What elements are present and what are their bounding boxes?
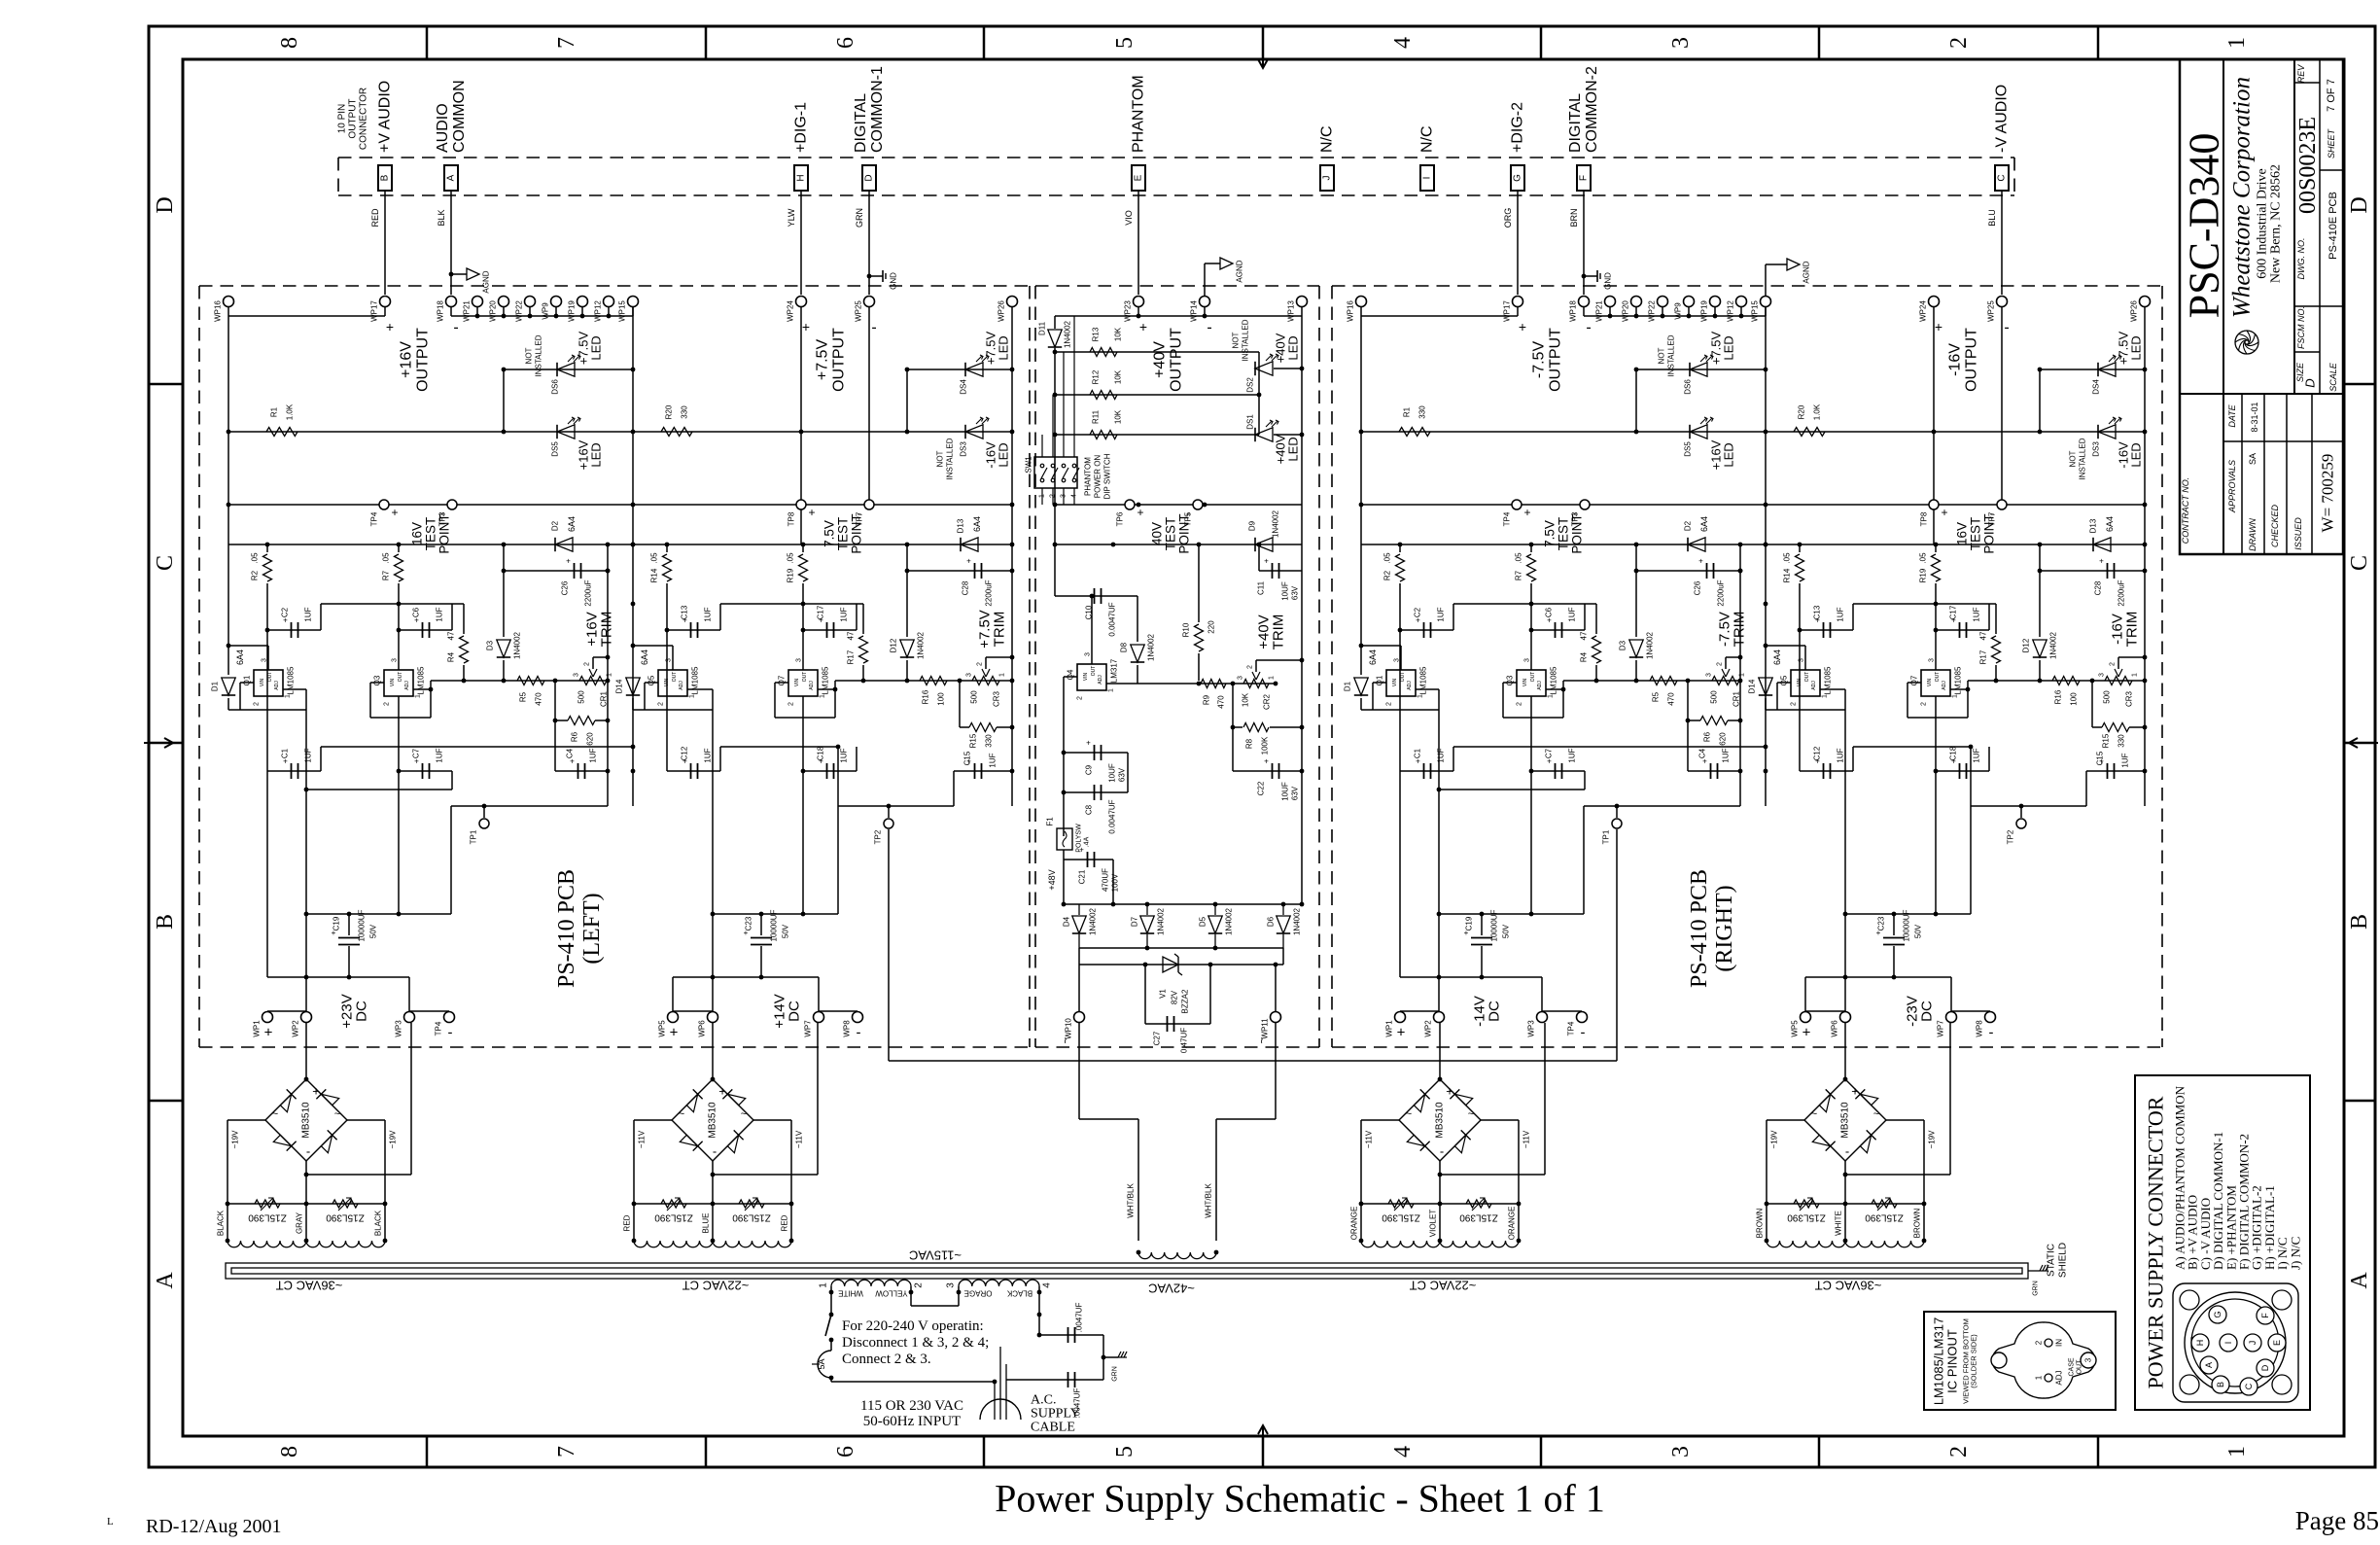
test point TP8 — [796, 500, 806, 509]
svg-text:-: - — [857, 1025, 861, 1041]
svg-text:R16: R16 — [2054, 689, 2063, 704]
svg-text:OUTPUT: OUTPUT — [348, 98, 359, 138]
svg-text:2: 2 — [1921, 702, 1928, 706]
svg-text:50V: 50V — [782, 924, 790, 938]
svg-text:D14: D14 — [615, 679, 624, 693]
svg-text:Q7: Q7 — [778, 675, 787, 685]
svg-text:SHEET: SHEET — [2327, 127, 2336, 158]
svg-text:C12: C12 — [1813, 746, 1822, 760]
svg-text:6A4: 6A4 — [1772, 650, 1782, 665]
terminal WP24 (left) — [796, 297, 807, 307]
resistor R6 620 — [554, 681, 556, 720]
connector pin B — [378, 165, 392, 191]
svg-text:1UF: 1UF — [589, 748, 598, 762]
svg-text:NOT: NOT — [1232, 332, 1241, 348]
svg-text:R19: R19 — [1919, 568, 1928, 582]
svg-text:.0047UF: .0047UF — [1075, 1303, 1084, 1333]
svg-text:BLACK: BLACK — [374, 1210, 383, 1236]
resistor R4 47 — [463, 604, 465, 634]
capacitor C1 1UF — [267, 770, 321, 772]
wire chain2 R row — [1766, 431, 2145, 433]
svg-text:CONTRACT NO.: CONTRACT NO. — [2181, 477, 2190, 544]
terminal WP11 — [1271, 1012, 1281, 1023]
svg-text:620: 620 — [586, 732, 595, 746]
svg-text:3: 3 — [1394, 658, 1401, 662]
svg-text:For 220-240 V operatin:: For 220-240 V operatin: — [842, 1318, 984, 1334]
svg-text:C7: C7 — [412, 748, 421, 758]
svg-text:LM1085: LM1085 — [691, 666, 700, 694]
resistor R8 100K — [1232, 684, 1234, 727]
connector pin F circle — [2257, 1307, 2274, 1324]
ground tap AGND on pin A wire — [449, 272, 454, 277]
bridge rectifier B3 MB3510 — [1399, 1079, 1440, 1120]
svg-text:DS3: DS3 — [2092, 441, 2101, 457]
capacitor C18 1UF — [803, 770, 857, 772]
primary winding 1-2 — [831, 1280, 911, 1286]
svg-text:2: 2 — [2110, 662, 2117, 666]
regulator Q5 LM1085 — [658, 670, 687, 696]
svg-text:C: C — [153, 555, 178, 571]
svg-text:GND: GND — [890, 272, 898, 290]
test point TP5 — [1193, 500, 1203, 509]
wire bridge B4 + lead — [1844, 1023, 1846, 1079]
svg-text:1: 1 — [1039, 494, 1046, 498]
svg-text:POINT: POINT — [1570, 513, 1585, 553]
wire phantom main row — [1055, 544, 1302, 545]
diode D14 6A4 — [1759, 678, 1772, 695]
svg-text:BRN: BRN — [1569, 208, 1579, 227]
svg-text:Z15L390: Z15L390 — [1865, 1212, 1904, 1223]
svg-text:330: 330 — [985, 734, 994, 748]
resistor R14 .05 — [1799, 544, 1801, 552]
svg-text:LED: LED — [2129, 442, 2144, 467]
svg-text:POWER ON: POWER ON — [1094, 455, 1102, 499]
svg-text:SHIELD: SHIELD — [2058, 1243, 2069, 1278]
svg-text:1UF: 1UF — [436, 748, 444, 762]
svg-text:220: 220 — [1207, 620, 1216, 634]
terminal WP19 (right) — [1710, 297, 1721, 307]
wire bridge B1 + lead — [305, 1023, 307, 1079]
svg-text:F: F — [1579, 175, 1590, 181]
wire chain2 ADJ row — [1968, 680, 2145, 682]
diode D3 1N4002 — [1635, 571, 1637, 637]
wire test point row — [228, 504, 633, 506]
svg-text:10000UF: 10000UF — [770, 909, 779, 941]
svg-text:F1: F1 — [1046, 817, 1055, 826]
svg-text:WP26: WP26 — [2130, 300, 2139, 322]
svg-text:SW1: SW1 — [1025, 456, 1033, 474]
svg-text:E: E — [1134, 174, 1144, 181]
connector pin J — [1320, 165, 1334, 191]
terminal WP13 (phantom) — [1297, 297, 1308, 307]
svg-text:New Bern, NC 28562: New Bern, NC 28562 — [2269, 164, 2284, 283]
terminal WP2 (left) bottom — [301, 1012, 312, 1023]
svg-text:CASE: CASE — [2069, 1357, 2076, 1376]
svg-text:RED: RED — [781, 1214, 789, 1231]
svg-text:.05: .05 — [1383, 552, 1392, 564]
svg-text:470: 470 — [1667, 692, 1676, 706]
svg-text:~: ~ — [334, 1108, 340, 1120]
svg-text:2: 2 — [584, 662, 591, 666]
svg-text:10K: 10K — [1114, 327, 1123, 341]
svg-text:(LEFT): (LEFT) — [579, 893, 605, 964]
connector drawing outer square — [2173, 1283, 2298, 1402]
svg-text:.05: .05 — [787, 552, 795, 564]
svg-text:115 OR 230 VAC: 115 OR 230 VAC — [860, 1398, 963, 1414]
regulator Q7 LM1085 — [788, 670, 818, 696]
10-pin output connector dashed box — [338, 157, 2014, 158]
varistor Z15L390 right B3 — [1466, 1200, 1491, 1208]
svg-text:D: D — [2260, 1364, 2270, 1371]
resistor R17 47 — [862, 604, 864, 634]
resistor R17 47 — [1995, 604, 1997, 634]
svg-text:PS-410E PCB: PS-410E PCB — [2327, 192, 2339, 260]
capacitor C1 1UF — [1400, 770, 1453, 772]
trimpot CR3 500 — [972, 677, 999, 685]
svg-text:ADJ: ADJ — [1098, 675, 1103, 685]
svg-text:ORAGE: ORAGE — [964, 1289, 993, 1298]
svg-text:C23: C23 — [1877, 916, 1886, 931]
svg-text:-: - — [306, 1144, 310, 1159]
svg-text:1UF: 1UF — [1837, 607, 1845, 621]
wire sub row — [1453, 603, 1596, 605]
varistor Z15L390 right B4 — [1872, 1200, 1897, 1208]
svg-text:INSTALLED: INSTALLED — [2079, 438, 2087, 479]
svg-text:2: 2 — [1386, 702, 1393, 706]
svg-text:WP18: WP18 — [1569, 300, 1578, 322]
svg-text:ORG: ORG — [1503, 208, 1513, 228]
capacitor C13 1UF — [1799, 583, 1801, 771]
svg-text:R11: R11 — [1092, 409, 1101, 424]
svg-text:MB3510: MB3510 — [301, 1102, 312, 1139]
svg-text:C9: C9 — [1085, 764, 1094, 775]
svg-text:TEST: TEST — [836, 517, 851, 551]
svg-text:6: 6 — [833, 1446, 858, 1457]
svg-text:3: 3 — [666, 658, 673, 662]
svg-text:+: + — [312, 1084, 320, 1099]
svg-text:+: + — [802, 319, 810, 334]
terminal WP16 (right) — [1356, 297, 1367, 307]
terminal WP22 (left) — [525, 297, 536, 307]
wire trim wiper — [1726, 656, 1740, 658]
svg-text:WP16: WP16 — [214, 300, 223, 322]
svg-text:330: 330 — [1418, 405, 1427, 419]
svg-text:6A4: 6A4 — [2105, 516, 2115, 532]
svg-text:+: + — [670, 1025, 679, 1041]
wire Q7 pins — [775, 682, 788, 684]
svg-text:R8: R8 — [1245, 738, 1254, 749]
diode D1 6A4 — [227, 544, 229, 675]
wire Q5 pins — [672, 646, 674, 670]
svg-text:WP25: WP25 — [1987, 300, 1996, 322]
svg-text:+DIG-2: +DIG-2 — [1510, 102, 1526, 153]
svg-text:470: 470 — [1217, 695, 1226, 709]
svg-text:BLU: BLU — [1987, 209, 1997, 227]
svg-text:DIP SWITCH: DIP SWITCH — [1103, 453, 1112, 499]
wire phantom rectifier row — [1064, 903, 1302, 905]
svg-text:GND: GND — [1604, 272, 1613, 290]
wire Q1 pins — [1400, 646, 1402, 670]
svg-text:~11V: ~11V — [638, 1130, 647, 1148]
svg-text:WP12: WP12 — [594, 300, 603, 322]
svg-text:2: 2 — [2035, 1340, 2044, 1345]
svg-text:R20: R20 — [1798, 404, 1806, 419]
TO-3 mounting hole left — [1991, 1352, 2007, 1368]
svg-text:W= 700259: W= 700259 — [2319, 454, 2337, 533]
svg-text:1: 1 — [285, 694, 292, 698]
svg-text:100K: 100K — [1261, 736, 1270, 755]
svg-text:DS3: DS3 — [960, 441, 968, 457]
terminal WP21 (left) — [472, 297, 483, 307]
svg-text:-7.5V: -7.5V — [1531, 341, 1548, 379]
svg-text:B: B — [2347, 914, 2372, 930]
wire Q7 pins — [1907, 682, 1921, 684]
wire chain2 tp row — [1766, 504, 2145, 506]
wire bridge B1 ac leads — [227, 1119, 265, 1121]
svg-text:R20: R20 — [665, 404, 674, 419]
svg-text:DS1: DS1 — [1246, 414, 1255, 430]
svg-text:D11: D11 — [1038, 321, 1047, 335]
svg-text:GRN: GRN — [2033, 1281, 2040, 1296]
svg-text:R1: R1 — [1403, 406, 1412, 417]
svg-text:2: 2 — [914, 1282, 925, 1288]
svg-text:+: + — [386, 319, 394, 334]
svg-text:WP14: WP14 — [1190, 300, 1199, 322]
svg-text:OUT: OUT — [1804, 672, 1810, 683]
connector pin H circle — [2191, 1334, 2209, 1352]
terminal WP5 (left) bottom — [668, 1012, 679, 1023]
svg-text:YLW: YLW — [787, 208, 796, 227]
svg-text:1N4002: 1N4002 — [1293, 907, 1302, 935]
svg-text:DC: DC — [1487, 1001, 1503, 1022]
svg-text:R15: R15 — [969, 733, 978, 748]
wire bridge B2 ac leads — [634, 1119, 672, 1121]
wire + output bus — [228, 315, 385, 317]
capacitor C22 10UF 63V — [1259, 770, 1302, 772]
svg-text:7 OF 7: 7 OF 7 — [2326, 79, 2337, 112]
connector pin F — [1577, 165, 1591, 191]
svg-text:LM1085: LM1085 — [287, 666, 296, 694]
svg-text:DATE: DATE — [2227, 404, 2237, 427]
svg-text:+: + — [566, 557, 571, 566]
resistor R7 .05 — [1530, 544, 1532, 552]
svg-text:+: + — [1698, 557, 1703, 566]
connector mounting holes — [2180, 1290, 2199, 1310]
trimpot CR1 500 — [1712, 677, 1739, 685]
border zone ticks — [426, 26, 429, 59]
resistor R13 10K — [1055, 351, 1259, 353]
terminal WP8 (left) bottom — [853, 1012, 863, 1023]
svg-text:Z15L390: Z15L390 — [326, 1212, 365, 1223]
wire TP1 row — [451, 805, 608, 807]
svg-text:D14: D14 — [1748, 679, 1757, 693]
svg-text:10 PIN: 10 PIN — [337, 104, 348, 134]
svg-text:MB3510: MB3510 — [1435, 1102, 1446, 1139]
zener V1 82V BZZA2 with C27 0.47UF — [1144, 965, 1146, 1024]
svg-text:+: + — [1397, 1025, 1406, 1041]
ground tap AGND on WP15 right — [1765, 264, 1767, 297]
svg-text:2: 2 — [977, 662, 984, 666]
terminal WP12 (left) — [604, 297, 614, 307]
wire varistor row B2 — [634, 1203, 791, 1205]
capacitor C17 1UF — [1935, 583, 1937, 670]
svg-text:C15: C15 — [2096, 751, 2105, 765]
svg-text:WP23: WP23 — [1124, 300, 1133, 322]
svg-text:VIN: VIN — [664, 678, 670, 686]
svg-text:+: + — [966, 557, 971, 566]
terminal WP16 (left) — [224, 297, 234, 307]
resistor R7 .05 — [398, 544, 400, 552]
svg-text:ADJ: ADJ — [679, 681, 684, 690]
svg-text:WP5: WP5 — [1791, 1020, 1800, 1037]
svg-text:VIN: VIN — [260, 678, 265, 686]
terminal WP14 (phantom) — [1200, 297, 1210, 307]
svg-text:1UF: 1UF — [304, 748, 313, 762]
svg-text:TP4: TP4 — [1503, 511, 1512, 526]
svg-text:OUT: OUT — [2077, 1359, 2083, 1375]
svg-text:1: 1 — [1952, 694, 1959, 698]
svg-text:1UF: 1UF — [1973, 607, 1981, 621]
svg-text:ORANGE: ORANGE — [1508, 1207, 1517, 1241]
svg-text:C13: C13 — [1813, 605, 1822, 619]
svg-text:TRIM: TRIM — [1732, 612, 1748, 648]
svg-text:WP10: WP10 — [1065, 1018, 1073, 1039]
terminal WP24 (right) — [1929, 297, 1940, 307]
regulator Q1 LM1085 — [254, 670, 283, 696]
terminal WP25 (left) — [864, 297, 875, 307]
svg-text:Q5: Q5 — [1780, 675, 1789, 685]
svg-text:-: - — [2004, 320, 2009, 336]
wire WP26 rail — [2144, 316, 2146, 806]
resistor R20 1.0K — [1794, 428, 1825, 437]
svg-text:~: ~ — [1059, 1036, 1072, 1043]
wire phantom lower buses — [1079, 947, 1283, 949]
wire ADJ row — [431, 680, 608, 682]
resistor R1 1.0K — [266, 428, 297, 437]
resistor R6 620 — [1687, 681, 1689, 720]
EMI capacitor .0047UF upper — [1039, 1334, 1103, 1336]
resistor R11 10K — [1055, 434, 1259, 436]
svg-text:REV: REV — [2296, 64, 2306, 84]
svg-text:R5: R5 — [519, 691, 528, 702]
svg-text:2: 2 — [1077, 696, 1084, 700]
diode D8 1N4002 — [1137, 641, 1138, 643]
svg-text:L: L — [107, 1516, 114, 1527]
svg-text:NOT: NOT — [525, 347, 534, 364]
terminal WP26 (right) — [2140, 297, 2151, 307]
svg-text:1N4002: 1N4002 — [1646, 631, 1655, 659]
svg-text:A: A — [446, 174, 457, 181]
svg-text:TP1: TP1 — [470, 829, 478, 844]
svg-text:WP9: WP9 — [542, 302, 550, 320]
svg-text:LED: LED — [1722, 442, 1736, 467]
svg-text:POWER SUPPLY CONNECTOR: POWER SUPPLY CONNECTOR — [2144, 1096, 2168, 1388]
AC supply cable entry — [980, 1399, 1021, 1420]
svg-text:TEST: TEST — [1557, 517, 1571, 551]
svg-text:WP8: WP8 — [1976, 1020, 1984, 1037]
capacitor C23 10000UF 50V — [760, 914, 762, 935]
terminal WP12 (right) — [1736, 297, 1747, 307]
svg-text:0.0047UF: 0.0047UF — [1108, 602, 1117, 636]
svg-text:0.47UF: 0.47UF — [1180, 1028, 1189, 1053]
transformer secondary winding B4 — [1766, 1204, 1767, 1241]
ground tap GND on pin F wire — [1582, 274, 1587, 279]
svg-text:R4: R4 — [1580, 651, 1589, 662]
svg-text:R5: R5 — [1652, 691, 1661, 702]
svg-text:WP21: WP21 — [1595, 300, 1604, 322]
resistor R19 .05 — [1935, 544, 1937, 552]
terminal WP9 (left) — [551, 297, 562, 307]
svg-text:.05: .05 — [1919, 552, 1928, 564]
svg-text:1.0K: 1.0K — [286, 404, 295, 420]
svg-text:D: D — [2303, 378, 2318, 387]
varistor Z15L390 left B3 — [1388, 1200, 1414, 1208]
svg-text:C4: C4 — [566, 748, 575, 758]
svg-text:100: 100 — [2070, 692, 2079, 706]
terminal WP7 (left) bottom — [814, 1012, 824, 1023]
LED DS3 — [2098, 425, 2116, 439]
wire chain2 sub row — [720, 603, 863, 605]
svg-text:5: 5 — [1112, 1446, 1137, 1457]
svg-text:8: 8 — [277, 1446, 302, 1457]
wire R1 row — [228, 431, 633, 433]
svg-text:TRIM: TRIM — [2124, 612, 2141, 648]
svg-text:3: 3 — [1929, 658, 1936, 662]
varistor Z15L390 left B1 — [255, 1200, 280, 1208]
svg-text:-: - — [1207, 320, 1211, 336]
svg-text:1N4002: 1N4002 — [1147, 633, 1156, 661]
svg-text:WP1: WP1 — [253, 1020, 262, 1037]
svg-text:10UF: 10UF — [1281, 782, 1290, 801]
svg-text:TP2: TP2 — [874, 829, 883, 844]
terminal TP4 (right) bottom — [1577, 1012, 1588, 1023]
connector pin J circle — [2244, 1334, 2261, 1352]
svg-text:RED: RED — [370, 208, 380, 228]
svg-text:C22: C22 — [1257, 781, 1266, 795]
wire output rail right — [1739, 544, 1741, 806]
svg-text:GRAY: GRAY — [296, 1211, 304, 1234]
wire chain2 bottom links — [1805, 1010, 1845, 1012]
svg-text:2: 2 — [1791, 702, 1798, 706]
svg-text:LED: LED — [589, 335, 604, 360]
svg-text:C17: C17 — [1949, 605, 1958, 619]
svg-text:WP6: WP6 — [698, 1020, 707, 1037]
svg-text:2200uF: 2200uF — [985, 579, 994, 606]
wire WP24 rail — [800, 316, 802, 544]
diode D12 1N4002 — [2039, 571, 2041, 637]
svg-text:~115VAC: ~115VAC — [909, 1248, 962, 1263]
svg-text:D7: D7 — [1131, 916, 1139, 927]
svg-text:D: D — [2347, 196, 2372, 213]
svg-text:Wheatstone Corporation: Wheatstone Corporation — [2229, 77, 2256, 318]
svg-text:WP18: WP18 — [437, 300, 445, 322]
terminal WP15 (right) — [1761, 297, 1771, 307]
svg-text:6A4: 6A4 — [1699, 516, 1709, 532]
diode D1 6A4 — [1360, 544, 1362, 675]
capacitor C8 0.0047UF — [1064, 791, 1128, 793]
svg-text:B: B — [2216, 1382, 2225, 1387]
svg-text:1UF: 1UF — [1722, 748, 1731, 762]
svg-text:R17: R17 — [847, 650, 856, 664]
svg-text:VIN: VIN — [1797, 678, 1802, 686]
svg-text:VIN: VIN — [1927, 678, 1933, 686]
connector pin I circle — [2220, 1334, 2237, 1352]
svg-text:63V: 63V — [1291, 786, 1300, 800]
svg-text:1UF: 1UF — [1437, 607, 1446, 621]
capacitor C7 1UF — [1531, 770, 1585, 772]
svg-text:C6: C6 — [1545, 607, 1554, 617]
svg-text:CHECKED: CHECKED — [2270, 505, 2280, 548]
